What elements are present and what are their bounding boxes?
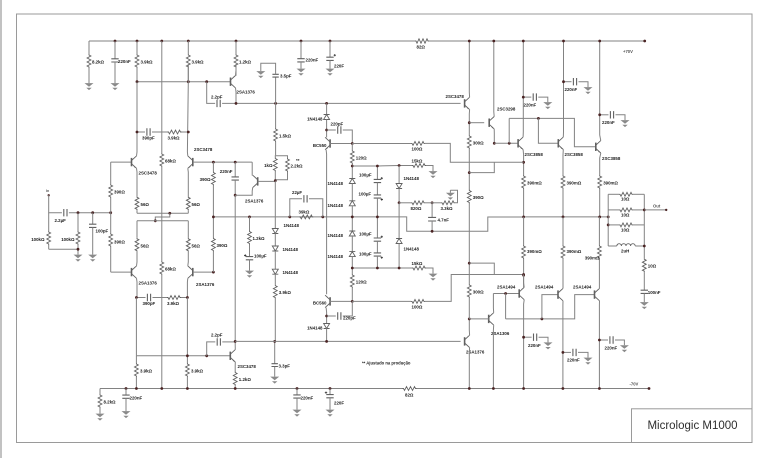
svg-text:2SC3858: 2SC3858 <box>565 152 584 157</box>
svg-text:3.3kΩ: 3.3kΩ <box>441 206 454 211</box>
wire column x235.2 down to VAS collector <box>234 195 236 341</box>
transistor 2SC3858 no3 <box>595 143 597 151</box>
ground below 220nF bottom mid <box>296 407 298 410</box>
node x274.7 y341.4 <box>273 340 276 343</box>
svg-text:1N4148: 1N4148 <box>404 176 420 181</box>
svg-text:2SC3478: 2SC3478 <box>238 364 257 369</box>
svg-text:BC560: BC560 <box>313 301 327 306</box>
wire cascode2 emitter link <box>251 162 253 175</box>
wire VAS emitter to 1.2k <box>234 362 236 372</box>
resistor 56R lower no1 <box>135 238 139 252</box>
wire divider column down through diodes <box>274 181 276 229</box>
svg-text:100µF: 100µF <box>359 252 372 257</box>
wire 100uF a-b <box>376 183 378 195</box>
node x505.6 y293.5 <box>504 292 507 295</box>
node x235.2 y341.4 <box>234 340 237 343</box>
transistor 2SC3478 Q2 upper flipped <box>192 158 194 166</box>
wire VAS rail continue <box>222 102 461 104</box>
svg-text:300Ω: 300Ω <box>473 290 484 295</box>
diode 1N4148 string b <box>272 246 278 251</box>
svg-text:100Ω: 100Ω <box>412 147 423 152</box>
node rail x126 <box>125 387 128 390</box>
wire low driver collector down <box>468 348 470 389</box>
wire 1494-2 collector down <box>562 301 564 389</box>
ground below 220nF bottom left <box>125 409 127 412</box>
transistor 2SA1376 driver lower <box>464 337 466 345</box>
ground below 8.2k bottom <box>99 411 101 414</box>
svg-text:1N4148: 1N4148 <box>283 270 299 275</box>
svg-text:4.7nF: 4.7nF <box>438 218 450 223</box>
ground below 220nF top mid <box>300 66 302 69</box>
node mid rail x249.5 <box>248 216 251 219</box>
transistor BC550 <box>329 139 331 147</box>
svg-text:390Ω: 390Ω <box>217 243 228 248</box>
wire column x136.4 to VAS base wire <box>135 298 137 356</box>
capacitor 100pF input <box>92 213 94 225</box>
wire bottom of 100k pair <box>49 248 78 250</box>
node x235.2 y195.2 <box>234 194 237 197</box>
svg-text:2SC3298: 2SC3298 <box>497 107 516 112</box>
svg-text:2SA1376: 2SA1376 <box>196 282 215 287</box>
node x399.1 y165.5 <box>398 164 401 167</box>
svg-text:3.9kΩ: 3.9kΩ <box>167 301 180 306</box>
node mid rail x322.8 <box>321 216 324 219</box>
svg-text:** Ajustado na produção: ** Ajustado na produção <box>362 361 411 366</box>
ground bypass c <box>624 118 626 121</box>
resistor 15k lower <box>412 266 426 270</box>
svg-text:390pF: 390pF <box>142 136 155 141</box>
node rail x330b <box>329 387 332 390</box>
node y81.7 x137 <box>136 80 139 83</box>
diode 1N4148 col3 lower <box>398 203 400 239</box>
wire col3 to 820R node <box>398 189 400 203</box>
wire diode to junction <box>326 120 328 138</box>
ground low bypass a <box>547 340 549 343</box>
node mid rail x432.1 <box>431 230 434 233</box>
wire driver collector to rail <box>468 41 470 97</box>
node rail x562.9 <box>562 387 565 390</box>
resistor 390R mid <box>212 162 214 171</box>
resistor 3.9k no1 top <box>136 41 138 54</box>
diode 1N4148 chain a <box>349 179 355 184</box>
wire string c to 3.9k <box>274 274 276 284</box>
node x352.3 y268 <box>351 267 354 270</box>
resistor 56R upper no2 <box>186 196 190 210</box>
svg-text:1N4148: 1N4148 <box>328 233 344 238</box>
resistor 390R mid lower <box>212 217 214 238</box>
wire 3858-2 collector <box>562 41 564 137</box>
node x235.2 y162.1 <box>234 161 237 164</box>
node rail x469.3 <box>468 387 471 390</box>
node rail x297 <box>296 387 299 390</box>
node x523.6 y337.2 <box>522 336 525 339</box>
svg-text:56Ω: 56Ω <box>192 243 201 248</box>
node x399.1 y268 <box>398 267 401 270</box>
svg-text:220pF: 220pF <box>331 122 344 127</box>
svg-text:2.2pF: 2.2pF <box>211 333 223 338</box>
wire VAS collector <box>234 341 236 349</box>
wire after 390pF upper <box>152 131 168 133</box>
node x523.6 y162.3 <box>522 161 525 164</box>
wire Q2L collector column <box>186 278 188 297</box>
ground below 8.2k <box>88 81 90 84</box>
node bus x608.2 <box>607 216 610 219</box>
wire Q1L collector column <box>136 278 139 297</box>
resistor 2.2k parallel loop <box>275 156 287 158</box>
svg-text:100µF: 100µF <box>359 173 372 178</box>
wire Q2 base to right network <box>193 161 252 163</box>
ground below 100uF fb <box>249 268 251 271</box>
resistor 68k upper <box>161 152 163 154</box>
svg-text:68kΩ: 68kΩ <box>165 267 176 272</box>
svg-text:3.3pF: 3.3pF <box>279 363 291 368</box>
node x562.9 y352.4 <box>562 351 565 354</box>
node VAS rail x326.6 <box>325 102 328 105</box>
resistor 3.9k string <box>273 285 277 299</box>
node bus x563 <box>562 216 565 219</box>
node x541.9 y318.9 <box>541 318 544 321</box>
resistor 1.2k top <box>235 41 237 54</box>
node x494.3 y143.3 <box>493 142 496 145</box>
svg-text:1N4148: 1N4148 <box>283 247 299 252</box>
node rail x137 <box>136 40 139 43</box>
resistor 3.9k bottom no2 <box>186 363 190 377</box>
wire BC560 collector-emitter column lower <box>325 308 328 324</box>
node x352.3 y166 <box>351 165 354 168</box>
svg-text:390mΩ: 390mΩ <box>603 181 618 186</box>
resistor 3.9k horizontal lower <box>167 296 181 300</box>
resistor 100R lower <box>411 300 425 304</box>
transistor 2SC3478 Q1 upper <box>131 158 133 166</box>
resistor 82R inline top rail <box>415 39 429 43</box>
node rail x563.5 <box>562 40 565 43</box>
svg-text:2SC3478: 2SC3478 <box>139 171 158 176</box>
resistor 56R upper no1 <box>135 196 139 210</box>
wire 1494-3 emitter up <box>598 287 600 289</box>
svg-text:2SA1376: 2SA1376 <box>237 90 256 95</box>
node x352.3 y143.5 <box>351 142 354 145</box>
svg-text:3.9kΩ: 3.9kΩ <box>168 136 181 141</box>
svg-text:2SA1494: 2SA1494 <box>535 285 554 290</box>
svg-text:220nF: 220nF <box>220 169 233 174</box>
wire 100uF d to lower tap <box>376 256 378 268</box>
node x377.4 y166 <box>376 165 379 168</box>
svg-text:220nF: 220nF <box>567 358 580 363</box>
wire 15k lower tap rail <box>352 267 412 269</box>
wire lower base bus y318.9 <box>506 295 595 319</box>
svg-text:3.9kΩ: 3.9kΩ <box>140 369 153 374</box>
node x352.3 y301.4 <box>351 300 354 303</box>
capacitor 220nF low bypass c <box>599 339 608 341</box>
svg-text:1.2kΩ: 1.2kΩ <box>239 377 252 382</box>
ground below 220uF bottom <box>329 407 331 410</box>
resistor 15k upper <box>412 164 426 168</box>
node x599.7 y114.8 <box>598 113 601 116</box>
resistor 10R zobel <box>642 258 646 272</box>
svg-text:3.9kΩ: 3.9kΩ <box>192 60 205 65</box>
wire upper base bus y118.4 <box>509 118 596 146</box>
node x469.3 y122.7 <box>468 121 471 124</box>
capacitor 220nF top left <box>114 41 116 59</box>
svg-text:390mΩ: 390mΩ <box>585 256 600 261</box>
capacitor 100uF d <box>374 253 381 256</box>
node rail x161.8 <box>160 387 163 390</box>
wire output base feed y143.3 <box>494 142 518 144</box>
node out right y209.9 <box>643 209 646 212</box>
wire base Q1 lower <box>111 271 132 273</box>
node VAS rail x236 <box>235 102 238 105</box>
wire cascode2 base to divider <box>258 180 276 182</box>
node rail x187.4 <box>186 387 189 390</box>
node mid rail x352.3 <box>351 216 354 219</box>
capacitor 220pF upper feedback <box>327 129 336 131</box>
svg-text:1N4148: 1N4148 <box>328 203 344 208</box>
wire rung y263.1 <box>469 263 494 274</box>
resistor 100R upper <box>411 142 425 146</box>
ground 15k lower <box>432 271 434 274</box>
transistor 2SA1306 <box>488 315 490 323</box>
node rail x161.8 <box>160 40 163 43</box>
wire chain c-d <box>351 236 353 252</box>
node bus x599.7 <box>598 216 601 219</box>
capacitor 100uF c <box>374 238 381 241</box>
node rail x188.3 <box>187 40 190 43</box>
inductor 2uH output <box>608 245 617 247</box>
svg-text:10Ω: 10Ω <box>621 227 630 232</box>
svg-text:1N4148: 1N4148 <box>307 326 323 331</box>
capacitor 2.2pF lower <box>217 338 220 345</box>
wire 1494-3 collector down <box>598 301 600 389</box>
ground low bypass b <box>587 355 589 358</box>
resistor 3.9k bottom no1 <box>135 356 137 363</box>
svg-text:2SC3478: 2SC3478 <box>194 147 213 152</box>
wire after 390pF <box>153 297 168 299</box>
svg-text:220nF: 220nF <box>565 87 578 92</box>
svg-text:2SC3478: 2SC3478 <box>446 94 465 99</box>
diode 1N4148 chain d <box>349 252 355 257</box>
transistor 2SA1376 Q2 lower flipped <box>192 268 194 276</box>
resistor 1.2k VAS emitter <box>233 372 237 386</box>
wire BC550 base right <box>330 143 352 145</box>
ground low bypass c <box>623 343 625 346</box>
capacitor 22uF <box>304 195 307 202</box>
node lower tail <box>154 219 157 222</box>
output network box left side <box>607 194 609 246</box>
svg-text:390mΩ: 390mΩ <box>567 249 582 254</box>
resistor 390mR low2 <box>562 217 564 245</box>
svg-text:68kΩ: 68kΩ <box>165 159 176 164</box>
wire col3 lower to 15k <box>398 244 400 269</box>
wire -70V bottom rail right <box>417 388 650 390</box>
wire Out terminal <box>644 209 666 211</box>
wire column x326.6 top <box>326 103 328 114</box>
wire string a-b <box>274 234 276 247</box>
svg-text:15kΩ: 15kΩ <box>412 159 423 164</box>
node x538.4 y118.4 <box>537 117 540 120</box>
wire 390pF compensation link upper <box>137 131 145 133</box>
wire 3858-3 collector <box>600 41 601 141</box>
wire 2SA1306 collector down <box>492 325 494 388</box>
capacitor 3.3pF VAS <box>274 341 276 363</box>
diode 1N4148 string a <box>272 229 278 234</box>
capacitor 2.2uF input <box>64 209 67 216</box>
capacitor 390pF upper <box>147 128 150 135</box>
ground below 220nF <box>114 81 116 84</box>
resistor 8.2k bottom <box>99 389 101 395</box>
transistor 2SA1494 no2 <box>557 290 559 298</box>
svg-text:15kΩ: 15kΩ <box>412 261 423 266</box>
svg-text:8.2kΩ: 8.2kΩ <box>92 60 105 65</box>
capacitor 100uF fb <box>246 257 253 260</box>
svg-text:220nF: 220nF <box>306 58 319 63</box>
wire riser x538.4 <box>538 118 558 143</box>
svg-text:2.2kΩ: 2.2kΩ <box>291 164 304 169</box>
resistor 10R out2 <box>608 209 619 211</box>
diode 1N4148 chain c <box>349 231 355 236</box>
capacitor 2.2pF top <box>217 100 220 107</box>
transistor 2SA1494 no1 <box>518 289 520 297</box>
node x399.1 y202.8 <box>398 201 401 204</box>
transistor 2SC3298 <box>488 119 490 127</box>
wire +70V top rail left section <box>89 40 415 42</box>
wire 3858-3 emitter <box>600 153 601 175</box>
node x523.3 y97.1 <box>522 96 525 99</box>
wire lower tail <box>137 220 188 222</box>
svg-text:2uH: 2uH <box>621 249 629 254</box>
wire 1494-1 emitter up <box>523 275 526 288</box>
node x326.6 y316 <box>325 315 328 318</box>
svg-text:100µF: 100µF <box>359 232 372 237</box>
svg-text:22µF: 22µF <box>292 190 302 195</box>
output network box right side <box>643 194 645 255</box>
svg-text:2SA1376: 2SA1376 <box>139 281 158 286</box>
transistor BC560 <box>329 297 331 305</box>
svg-text:1kΩ: 1kΩ <box>264 163 273 168</box>
svg-text:220nF: 220nF <box>602 120 615 125</box>
resistor 56R lower no2 <box>186 238 190 252</box>
capacitor 100uF b <box>374 195 381 198</box>
node VAS rail x275.6 <box>274 102 277 105</box>
ground 3.3k hook <box>449 190 451 193</box>
svg-text:Out: Out <box>653 203 661 208</box>
transistor 2SA1376 cascode upper <box>230 78 232 86</box>
svg-text:390Ω: 390Ω <box>200 177 211 182</box>
node bottom rail terminal -70V <box>648 387 651 390</box>
node rail x599.4 <box>598 387 601 390</box>
resistor 100k no1 <box>48 213 50 231</box>
resistor 390mR low3 <box>598 217 600 245</box>
wire 100uF c-d <box>376 241 378 253</box>
svg-text:In: In <box>46 189 49 193</box>
wire Q2 collector column <box>186 64 189 156</box>
wire 2SC3298 base <box>469 122 484 124</box>
wire Q2L emitter column <box>187 252 190 266</box>
ground bypass a <box>547 100 549 103</box>
svg-text:2SC3858: 2SC3858 <box>525 152 544 157</box>
transistor 2SC3478 driver upper <box>464 99 466 107</box>
wire low driver emitter up <box>468 319 470 335</box>
node input x78 <box>77 211 80 214</box>
resistor 390mR up2 <box>561 175 565 189</box>
ground below 100k pair <box>77 252 79 255</box>
node mid rail x213.4 <box>212 216 215 219</box>
svg-text:220nF: 220nF <box>118 59 131 64</box>
svg-text:390Ω: 390Ω <box>473 195 484 200</box>
ground below 220uF top <box>329 66 331 69</box>
node box x608.2 y224.9 <box>607 224 610 227</box>
resistor 10R out1 <box>608 193 619 195</box>
wire lower bus riser <box>505 294 507 319</box>
capacitor 220nF rail bypass c <box>600 114 609 116</box>
wire column x187.4 down <box>186 298 188 364</box>
node x213.4 y162.1 <box>212 161 215 164</box>
capacitor 220nF mid <box>234 162 236 177</box>
wire tail jog <box>155 213 170 221</box>
resistor 820R <box>399 202 411 204</box>
resistor 100k no2 <box>77 213 79 231</box>
capacitor 390pF lower <box>147 294 150 301</box>
diode 1N4148 chain b <box>349 201 355 206</box>
svg-text:820Ω: 820Ω <box>411 206 422 211</box>
svg-text:220nF: 220nF <box>301 396 314 401</box>
svg-text:220F: 220F <box>334 64 344 69</box>
wire emitter bus y216.9 <box>524 216 609 218</box>
svg-text:82Ω: 82Ω <box>417 45 426 50</box>
transistor 2SC3858 no1 <box>517 139 519 147</box>
svg-text:220nF: 220nF <box>524 103 537 108</box>
wire 2.2pF to collector column <box>222 341 235 343</box>
svg-text:2.2pF: 2.2pF <box>211 95 223 100</box>
node x136.4 y297.5 <box>135 296 138 299</box>
capacitor 220uF electrolytic bottom <box>329 389 331 395</box>
svg-text:390pF: 390pF <box>143 301 156 306</box>
wire 100R to bus riser <box>425 275 524 302</box>
wire chain b to rail <box>351 206 353 231</box>
wire 390pF compensation link lower <box>136 297 145 299</box>
svg-text:1N4148: 1N4148 <box>328 254 344 259</box>
diode 1N4148 col3 upper <box>398 166 400 184</box>
wire 15k upper tap rail <box>352 165 412 168</box>
node rail x599.7 <box>598 40 601 43</box>
node rail x115 <box>114 40 117 43</box>
svg-text:56Ω: 56Ω <box>141 243 150 248</box>
svg-text:390mΩ: 390mΩ <box>527 181 542 186</box>
capacitor 220uF electrolytic top <box>329 41 331 57</box>
resistor 39k on rail <box>299 215 313 219</box>
wire mid rail y216.9 <box>213 217 523 231</box>
svg-text:56Ω: 56Ω <box>192 202 201 207</box>
wire 3858-1 collector <box>522 41 524 137</box>
capacitor 220nF low bypass a <box>524 336 532 338</box>
resistor 3.9k no2 top <box>187 41 189 54</box>
svg-text:220nF: 220nF <box>528 343 541 348</box>
capacitor 220nF low bypass b <box>563 351 571 353</box>
node x326.6 y130 <box>325 129 328 132</box>
wire 2.2pF lower hook <box>207 342 216 356</box>
wire base rail y81.7 <box>137 81 231 83</box>
svg-text:100Ω: 100Ω <box>412 305 423 310</box>
node x563.5 y81.7 <box>562 80 565 83</box>
capacitor 220nF rail bypass b <box>564 81 572 83</box>
wire base Q2L to right <box>193 271 214 273</box>
node x188.3 y132 <box>187 131 190 134</box>
ground zobel <box>643 300 645 303</box>
svg-text:8.2kΩ: 8.2kΩ <box>104 400 117 405</box>
node rail x301 <box>300 40 303 43</box>
svg-text:220nF: 220nF <box>605 346 618 351</box>
svg-text:390mΩ: 390mΩ <box>567 181 582 186</box>
wire input down <box>49 195 62 212</box>
